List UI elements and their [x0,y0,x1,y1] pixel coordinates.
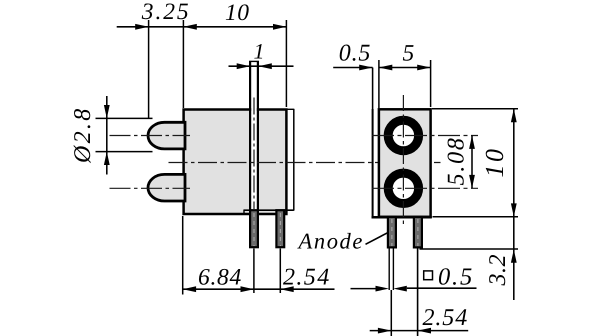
svg-text:2.54: 2.54 [283,265,331,291]
right side extension lines [420,109,519,249]
svg-text:10: 10 [480,147,509,178]
pin B lead line [417,247,419,336]
dimension 3.25 / 10 (top of side view) [117,20,287,119]
svg-text:3.25: 3.25 [141,0,191,25]
dimension 5.08 [469,136,475,189]
svg-text:5: 5 [403,40,415,66]
ring 1 centerline [372,135,478,137]
svg-text:Anode: Anode [297,229,364,254]
front view vertical centerline [402,95,404,227]
dimension 3.2 [511,217,517,300]
svg-text:3.2: 3.2 [485,254,511,287]
svg-text:6.84: 6.84 [198,265,242,291]
pin A (front view) [388,217,396,247]
LED dome 1 (side view) [148,122,185,149]
LED dome 2 (side view) [148,174,185,201]
pin A extension line [390,290,392,336]
svg-text:0.5: 0.5 [438,263,474,290]
svg-text:10: 10 [225,0,250,26]
svg-text:5.08: 5.08 [444,136,470,185]
lead channel (side view) [249,61,259,212]
rear flange (side view) [244,109,294,214]
svg-text:Ø2.8: Ø2.8 [70,106,96,164]
dimension 6.84 / 2.54 (bottom of side view) [183,216,335,295]
dome 1 centerline [110,135,191,137]
main horizontal centerline [169,162,441,164]
pin B (front view) [414,217,422,247]
ring 2 centerline [372,187,478,189]
anode leader line [366,233,388,245]
dimension 0.5 / 5 (top of front view) [333,60,430,108]
LED ring 2 (front view) [384,169,423,208]
svg-text:2.54: 2.54 [423,305,469,331]
dimension 2.54 (front view bottom) [370,328,469,334]
pin A square lead [389,247,393,290]
front view flange edge [372,68,374,217]
svg-text:0.5: 0.5 [339,40,371,66]
dimension 1 (lead width, side view) [229,63,294,69]
pin row 1 (side view) [250,210,258,247]
LED ring 1 (front view) [384,116,423,155]
side view body [184,110,287,215]
front view body [372,109,432,217]
lead centerline (side view) [253,98,255,210]
svg-text:1: 1 [254,39,265,64]
dimension Ø2.8 (dome diameter) [96,96,153,175]
dome 2 centerline [110,187,191,189]
pin row 2 (side view) [276,210,284,247]
dimension 10 (front view height) [511,109,517,217]
dimension square 0.5 (lead size) [351,271,477,292]
